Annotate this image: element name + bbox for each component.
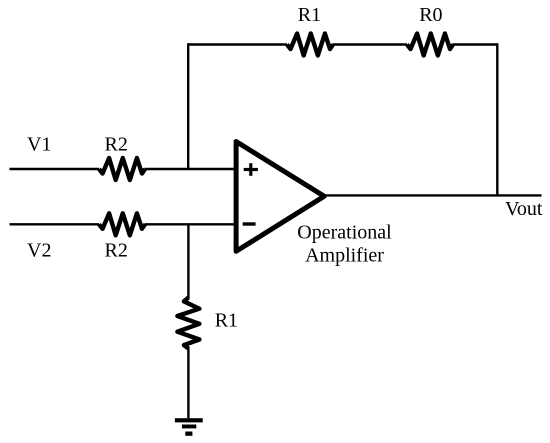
- svg-text:Vout: Vout: [505, 198, 543, 220]
- wire V1 input right segment to op-amp: [145, 168, 236, 170]
- wire output to Vout: [324, 194, 541, 196]
- wire left vertical feedback drop: [187, 43, 189, 169]
- op-amp U1 triangle: [236, 142, 324, 252]
- resistor R1 (to ground, vertical): [177, 298, 199, 349]
- op-amp inverting - pin mark: [243, 222, 256, 225]
- svg-text:R2: R2: [105, 239, 128, 261]
- svg-text:Operational: Operational: [297, 221, 392, 243]
- svg-text:R0: R0: [419, 4, 442, 26]
- svg-text:R1: R1: [298, 4, 321, 26]
- resistor R2 (V1 input): [99, 158, 145, 180]
- wire inverting node down to resistor R1: [187, 224, 189, 298]
- wire right vertical feedback drop: [496, 43, 498, 195]
- svg-text:Amplifier: Amplifier: [305, 245, 384, 267]
- svg-text:R2: R2: [105, 134, 128, 156]
- wire V1 input left segment: [10, 168, 100, 170]
- svg-text:V1: V1: [27, 134, 51, 156]
- wire top feedback right segment: [453, 43, 498, 45]
- resistor R2 (V2 input): [99, 213, 145, 235]
- svg-text:V2: V2: [27, 239, 51, 261]
- wire V2 input right segment to op-amp: [145, 223, 236, 225]
- wire resistor R1 to ground: [187, 347, 189, 418]
- wire top feedback middle segment: [333, 43, 408, 45]
- svg-text:R1: R1: [215, 309, 238, 331]
- op-amp non-inverting + pin mark: [244, 163, 258, 176]
- resistor R1 (top feedback): [287, 34, 333, 56]
- ground: [175, 418, 203, 436]
- wire top feedback left segment: [188, 43, 287, 45]
- wire V2 input left segment: [10, 223, 100, 225]
- resistor R0 (top feedback): [407, 34, 453, 56]
